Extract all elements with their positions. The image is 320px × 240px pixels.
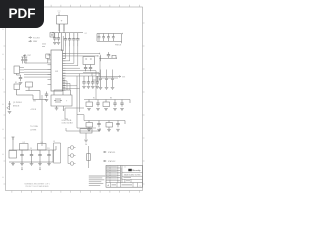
- svg-text:Q1 2N3904: Q1 2N3904: [13, 102, 22, 104]
- svg-text:U3: U3: [41, 142, 43, 144]
- svg-text:1: 1: [140, 185, 141, 187]
- svg-text:Microchip: Microchip: [132, 170, 140, 172]
- svg-text:nnn: nnn: [124, 167, 127, 169]
- svg-text:BSS138: BSS138: [13, 106, 19, 108]
- svg-text:C4: C4: [85, 33, 87, 35]
- svg-text:TO CONN: TO CONN: [30, 126, 39, 128]
- svg-text:J2 PWR: J2 PWR: [30, 129, 37, 131]
- svg-text:VBAT: VBAT: [33, 40, 37, 43]
- svg-text:+12V IN: +12V IN: [30, 109, 37, 111]
- svg-text:STATUS1: STATUS1: [108, 151, 115, 154]
- svg-text:+: +: [61, 19, 63, 23]
- svg-text:3V3: 3V3: [122, 76, 125, 78]
- svg-text:U2: U2: [23, 142, 25, 144]
- svg-text:R1: R1: [93, 98, 95, 100]
- svg-text:J3: J3: [53, 141, 55, 143]
- svg-text:VCC3V3: VCC3V3: [33, 37, 40, 39]
- svg-text:R3: R3: [110, 98, 112, 100]
- svg-text:PWR_IN: PWR_IN: [115, 44, 122, 46]
- svg-text:K1: K1: [15, 82, 17, 84]
- svg-text:C9: C9: [30, 148, 32, 150]
- svg-text:STATUS2: STATUS2: [108, 160, 115, 163]
- svg-text:D4: D4: [85, 144, 87, 146]
- svg-text:C11: C11: [47, 148, 50, 150]
- svg-text:RST: RST: [28, 55, 31, 57]
